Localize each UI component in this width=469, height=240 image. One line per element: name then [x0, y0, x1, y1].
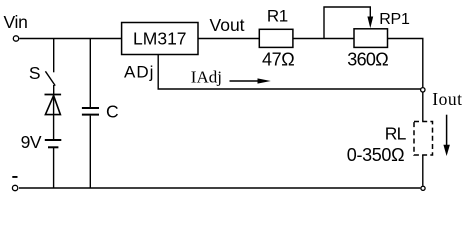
arrow Iout	[443, 115, 450, 156]
op-amp regulator U1 LM317 box	[122, 23, 198, 55]
svg-text:S: S	[29, 63, 41, 83]
svg-text:ADj: ADj	[124, 63, 154, 82]
load resistor RL (dashed)	[414, 122, 433, 156]
svg-text:47Ω: 47Ω	[262, 50, 294, 70]
capacitor C	[82, 108, 99, 115]
svg-text:360Ω: 360Ω	[347, 50, 388, 70]
wire Vout	[198, 38, 259, 40]
wire node to RL	[422, 92, 424, 121]
resistor R1	[259, 29, 293, 47]
wire cap branch lower	[89, 116, 91, 188]
svg-text:IAdj: IAdj	[191, 68, 222, 87]
svg-text:0-350Ω: 0-350Ω	[347, 145, 404, 165]
wire top rail	[19, 38, 121, 40]
wire RP1 to right vertical	[388, 39, 423, 88]
wire bottom rail	[19, 187, 420, 189]
switch S	[45, 39, 55, 86]
svg-text:Iout: Iout	[432, 89, 462, 109]
wire battery to bottom rail	[53, 148, 55, 188]
svg-text:RL: RL	[385, 123, 407, 143]
svg-text:LM317: LM317	[133, 29, 187, 49]
wire switch to diode	[53, 85, 55, 95]
terminal node Vin	[13, 36, 18, 41]
svg-text:9V: 9V	[21, 132, 42, 152]
wire R1 to RP1	[293, 38, 354, 40]
label minus	[12, 176, 17, 178]
arrow IAdj	[230, 78, 271, 83]
wire ADj pin	[158, 55, 420, 90]
terminal node bottom left	[12, 185, 17, 190]
svg-text:RP1: RP1	[379, 11, 410, 28]
pot wiper arrowhead	[367, 17, 373, 29]
svg-text:C: C	[106, 102, 119, 122]
wire cap branch upper	[89, 39, 91, 108]
diode D (zener 9V clamp)	[45, 95, 62, 140]
battery 9V	[45, 140, 62, 147]
pot wiper loop wire	[324, 7, 370, 39]
node bottom right	[421, 186, 425, 190]
svg-text:Vout: Vout	[210, 15, 245, 35]
node junction ADj/RL	[421, 88, 425, 92]
wire RL to bottom node	[422, 155, 424, 186]
svg-text:Vin: Vin	[4, 12, 28, 32]
svg-text:R1: R1	[267, 7, 288, 26]
potentiometer RP1	[354, 29, 388, 48]
